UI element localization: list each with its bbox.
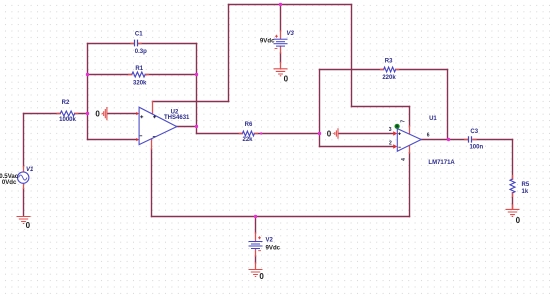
svg-text:22k: 22k (242, 137, 253, 143)
wire R3 row (320, 69, 448, 71)
pin stub R2 left (57, 113, 60, 115)
wire R2 row (24, 113, 88, 115)
pin G4 stem (512, 205, 514, 209)
pin stub R6 left (239, 133, 242, 135)
svg-text:V3: V3 (287, 31, 295, 37)
pin stub R5 top (512, 176, 514, 180)
pin U2 V- (151, 139, 153, 149)
svg-text:THS4631: THS4631 (164, 115, 190, 121)
resistor R3 220k (384, 67, 396, 72)
junction dot U1 output (447, 138, 450, 141)
wire R3 left vertical down to pin2 jog (319, 70, 321, 147)
svg-text:100n: 100n (469, 145, 483, 151)
wire R1 row right (145, 74, 196, 76)
source V3 battery (274, 39, 288, 46)
U2 +in arrowhead (136, 112, 139, 115)
wire C3 right (473, 139, 513, 141)
wire right drop from rail (351, 5, 353, 107)
svg-text:0.3p: 0.3p (135, 49, 147, 55)
svg-text:220k: 220k (382, 75, 396, 81)
junction dot R2 node (86, 112, 89, 115)
svg-text:V1: V1 (26, 167, 34, 173)
wire R3 right vertical (447, 70, 449, 140)
svg-text:0: 0 (284, 75, 289, 84)
wire V1 bottom (23, 189, 25, 216)
wire R6 row right (254, 133, 319, 135)
pin G2 stem (280, 63, 282, 69)
wire right feedback vertical (196, 44, 198, 127)
capacitor C1 0.3p (135, 40, 138, 47)
pin stub C1 left (131, 43, 134, 45)
pin V2 top (255, 233, 257, 241)
svg-text:V2: V2 (266, 237, 274, 243)
pin U1 7 (409, 126, 411, 134)
ground under V2 (249, 270, 263, 277)
svg-text:U1: U1 (429, 116, 437, 122)
resistor R1 320k (132, 72, 145, 77)
svg-text:7: 7 (401, 120, 407, 123)
junction dot V2 tap (254, 215, 257, 218)
svg-text:1000k: 1000k (59, 117, 76, 123)
junction dot U2 output (195, 125, 198, 128)
wire R6 row left (197, 133, 243, 135)
U2 -in arrowhead (136, 138, 139, 141)
svg-text:0: 0 (26, 221, 31, 230)
pin stub C3 right (473, 139, 476, 141)
wire V3 stem (280, 5, 282, 32)
wire pin7 vertical (409, 107, 411, 127)
svg-text:6: 6 (427, 132, 430, 138)
ground under V3 (274, 69, 288, 76)
svg-text:320k: 320k (133, 80, 147, 86)
wire V2 to ground (255, 256, 257, 263)
svg-text:0: 0 (327, 129, 332, 138)
resistor R6 22k (242, 131, 254, 136)
svg-text:R6: R6 (245, 122, 253, 128)
wire U1 pin3 row from ground (339, 133, 394, 135)
svg-text:9Vdc: 9Vdc (260, 37, 275, 44)
wire V3 to ground (280, 53, 282, 63)
wire top rail (229, 4, 352, 6)
wire C1 row left (88, 43, 135, 45)
svg-text:R3: R3 (385, 58, 393, 64)
svg-text:0: 0 (259, 272, 264, 281)
svg-text:0: 0 (516, 216, 521, 225)
pin V2 bottom (255, 249, 257, 256)
wire C1 row right (138, 43, 197, 45)
pin stub R6 right (254, 133, 257, 135)
wire C3 drop to R5 (512, 140, 514, 180)
voltage marker green (395, 124, 399, 128)
svg-text:R5: R5 (522, 182, 530, 188)
ground under V1 (17, 217, 31, 224)
svg-text:C3: C3 (470, 129, 478, 135)
wire R1 row left (88, 74, 132, 76)
svg-text:0Vdc: 0Vdc (2, 179, 17, 186)
U1 pin2 arrowhead (393, 144, 397, 148)
svg-text:R1: R1 (135, 66, 143, 72)
wire bottom rail (152, 216, 410, 218)
junction dot top rail V3 (279, 3, 282, 6)
ground rotated at U2 +input (102, 107, 107, 120)
pin U1 4 (409, 145, 411, 153)
svg-text:1k: 1k (522, 189, 529, 195)
pin V3 top (280, 31, 282, 39)
op-amp U2 THS4631 (139, 107, 177, 144)
wire U1 pin4 vertical (409, 153, 411, 217)
wire to U1 pin7 (352, 106, 410, 108)
pin stub R3 right (396, 69, 399, 71)
pin G3 stem (255, 263, 257, 269)
U1 pin3 arrowhead (393, 131, 397, 135)
pin stub R1 left (129, 74, 132, 76)
junction dot R1 left (86, 73, 89, 76)
pin stub C1 right (138, 43, 141, 45)
ground under R5 (506, 209, 520, 216)
wire U2 V- vertical (151, 149, 153, 217)
pin stub R1 right (145, 74, 148, 76)
wire output jog down (196, 127, 198, 134)
pin V1 bottom (23, 183, 25, 188)
resistor R5 1k (510, 179, 515, 193)
wire U2 inverting input (88, 139, 137, 141)
wire U2 V+ feed horizontal (153, 101, 229, 103)
junction dot R1 right (195, 73, 198, 76)
pin V3 bottom (280, 46, 282, 53)
wire left drop from rail to U2 V+ feed (228, 5, 230, 102)
pin stub R5 bottom (512, 193, 514, 197)
wire U2 + input from ground (108, 113, 137, 115)
capacitor C3 100n (469, 136, 472, 142)
svg-text:9Vdc: 9Vdc (266, 244, 281, 251)
svg-text:3: 3 (389, 127, 392, 133)
wire V1 top (23, 114, 25, 167)
wire U1 output (421, 139, 468, 141)
wire U2 output (177, 126, 197, 128)
junction dot U1 pin2 node (318, 132, 321, 135)
pin stub R3 left (381, 69, 384, 71)
wire V2 stem (255, 217, 257, 234)
svg-text:LM7171A: LM7171A (428, 160, 455, 166)
svg-text:C1: C1 (135, 31, 143, 37)
ground rotated at U1 pin3 (333, 128, 338, 139)
svg-text:R2: R2 (62, 100, 70, 106)
pin stub R2 right (75, 113, 78, 115)
wire R5 bottom (512, 193, 514, 209)
op-amp U1 LM7171A (397, 129, 421, 152)
svg-text:2: 2 (389, 141, 392, 147)
pin stub C3 left (465, 139, 468, 141)
svg-text:0: 0 (95, 110, 100, 119)
source V1 sine (18, 172, 29, 183)
svg-text:4: 4 (401, 158, 407, 161)
source V2 battery (249, 242, 263, 249)
junction dot small after R6 (260, 132, 262, 134)
resistor R2 1000k (60, 111, 75, 116)
wire left feedback vertical (87, 44, 89, 140)
pin V1 top (23, 167, 25, 173)
pin U2 V+ (152, 102, 154, 115)
wire U1 pin2 row (320, 146, 394, 148)
